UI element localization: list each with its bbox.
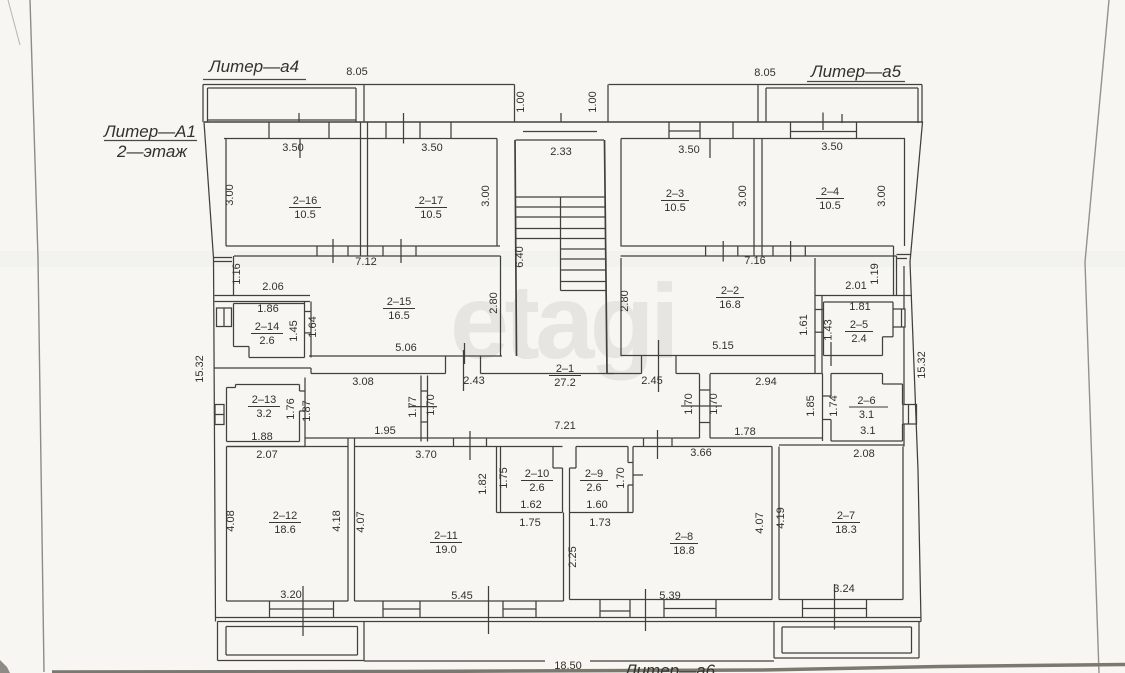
corridor wall x699.5	[699, 374, 701, 438]
svg-text:8.05: 8.05	[346, 66, 367, 78]
18.50 dimension line	[364, 660, 545, 662]
svg-text:Литер—а6: Литер—а6	[624, 661, 716, 673]
svg-text:1.70: 1.70	[708, 393, 720, 414]
room 2-3 left wall	[620, 139, 622, 247]
mid band right wing	[621, 245, 894, 247]
svg-text:2.6: 2.6	[586, 482, 601, 494]
svg-text:18.6: 18.6	[274, 524, 295, 536]
mid band left wing	[226, 245, 500, 247]
bottom porch right	[773, 622, 775, 659]
svg-text:1.45: 1.45	[288, 320, 300, 341]
svg-text:1.95: 1.95	[374, 425, 395, 437]
svg-text:2—этаж: 2—этаж	[116, 142, 188, 161]
svg-text:3.2: 3.2	[256, 408, 271, 420]
bottom dim ticks	[302, 586, 304, 636]
svg-text:3.24: 3.24	[833, 583, 854, 595]
svg-text:19.0: 19.0	[435, 544, 456, 556]
svg-text:10.5: 10.5	[664, 202, 685, 214]
svg-text:3.66: 3.66	[690, 447, 711, 459]
wall between 2-14 and 2-15	[304, 302, 306, 358]
svg-text:2.4: 2.4	[851, 333, 866, 345]
wall 2-8/2-7	[771, 447, 773, 600]
svg-text:10.5: 10.5	[819, 200, 840, 212]
svg-text:5.45: 5.45	[451, 590, 472, 602]
top wall ticks left wing	[268, 122, 270, 139]
left outer wall upper slant	[204, 122, 214, 258]
svg-text:1.74: 1.74	[828, 395, 840, 416]
svg-text:16.5: 16.5	[388, 310, 409, 322]
svg-text:6.40: 6.40	[514, 246, 526, 267]
svg-text:3.00: 3.00	[876, 185, 888, 206]
svg-text:27.2: 27.2	[554, 377, 575, 389]
right wing band step to outer wall	[893, 246, 895, 296]
svg-text:2.6: 2.6	[259, 335, 274, 347]
svg-text:2.94: 2.94	[755, 376, 776, 388]
bottom interior lines	[227, 600, 349, 602]
room 2-7 right	[902, 447, 904, 600]
dim tick 5.15	[830, 342, 832, 366]
svg-text:1.77: 1.77	[407, 396, 419, 417]
svg-text:8.05: 8.05	[754, 67, 775, 79]
svg-text:1.43: 1.43	[823, 319, 835, 340]
bottom windows	[269, 601, 271, 618]
svg-text:2.33: 2.33	[550, 146, 571, 158]
svg-text:1.78: 1.78	[734, 426, 755, 438]
titles	[103, 57, 905, 673]
svg-text:2–4: 2–4	[821, 186, 839, 198]
svg-text:1.62: 1.62	[520, 499, 541, 511]
svg-text:2.45: 2.45	[641, 375, 662, 387]
svg-text:10.5: 10.5	[420, 209, 441, 221]
svg-text:4.19: 4.19	[775, 507, 787, 528]
svg-text:2.6: 2.6	[529, 482, 544, 494]
porch liter-a4	[202, 85, 204, 123]
vent box left 2-13	[215, 405, 224, 425]
svg-text:2–6: 2–6	[857, 395, 875, 407]
svg-text:4.07: 4.07	[754, 512, 766, 533]
closet 2-9	[575, 447, 577, 469]
scan fold light band	[0, 251, 1125, 267]
svg-text:1.70: 1.70	[425, 394, 437, 415]
svg-text:2–13: 2–13	[252, 394, 276, 406]
svg-text:1.87: 1.87	[301, 400, 313, 421]
svg-text:1.81: 1.81	[849, 301, 870, 313]
stair vestibule outside walls	[514, 85, 516, 123]
room 2-5 block	[815, 295, 912, 297]
svg-text:2–1: 2–1	[556, 363, 574, 375]
right wall inner face	[903, 266, 905, 309]
top wall ticks right wing	[668, 122, 670, 139]
svg-text:2–8: 2–8	[675, 531, 693, 543]
svg-text:3.00: 3.00	[224, 184, 236, 205]
svg-text:5.15: 5.15	[712, 340, 733, 352]
svg-text:15.32: 15.32	[916, 351, 928, 379]
svg-text:18.8: 18.8	[673, 545, 694, 557]
svg-text:1.60: 1.60	[586, 499, 607, 511]
svg-text:1.82: 1.82	[477, 473, 489, 494]
svg-text:16.8: 16.8	[719, 299, 740, 311]
svg-text:2.80: 2.80	[619, 290, 631, 311]
bottom outer wall	[216, 617, 922, 619]
svg-text:2.80: 2.80	[488, 292, 500, 313]
svg-text:2.43: 2.43	[463, 375, 484, 387]
closet 2-10	[496, 447, 498, 513]
svg-text:5.39: 5.39	[659, 590, 680, 602]
svg-text:Литер—а5: Литер—а5	[810, 62, 902, 81]
rotated dimension labels	[194, 91, 928, 567]
svg-text:2.25: 2.25	[567, 546, 579, 567]
stair lower flight steps	[561, 248, 607, 250]
room 2-14	[234, 303, 305, 305]
svg-text:1.16: 1.16	[231, 263, 243, 284]
stair divider	[560, 197, 562, 291]
svg-text:1.76: 1.76	[285, 398, 297, 419]
vent box right 2-6	[903, 405, 917, 425]
room 2-17 right wall	[496, 139, 498, 247]
svg-text:3.70: 3.70	[415, 449, 436, 461]
svg-text:1.70: 1.70	[683, 393, 695, 414]
room 2-2 walls	[620, 258, 622, 356]
svg-text:2–12: 2–12	[273, 510, 297, 522]
svg-text:3.00: 3.00	[480, 185, 492, 206]
left step wall under band	[214, 257, 233, 259]
room tops along corridor	[227, 446, 349, 448]
svg-text:1.19: 1.19	[869, 263, 881, 284]
svg-text:1.00: 1.00	[587, 91, 599, 112]
stair upper flight steps	[516, 206, 606, 208]
dim tick 5.06	[464, 343, 466, 364]
stair vestibule bottom	[516, 196, 606, 198]
room 2-4 right wall	[904, 139, 906, 247]
svg-text:2–2: 2–2	[721, 285, 739, 297]
vent box right 2-5	[893, 309, 905, 327]
svg-text:1.64: 1.64	[307, 316, 319, 337]
page right edge	[1085, 0, 1109, 673]
page bottom-left corner blob	[0, 660, 10, 673]
svg-text:1.88: 1.88	[251, 431, 272, 443]
svg-text:Литер—А1: Литер—А1	[103, 122, 196, 141]
page bottom dark edge	[52, 665, 1125, 673]
svg-text:3.50: 3.50	[282, 142, 303, 154]
svg-text:5.06: 5.06	[395, 342, 416, 354]
svg-text:2.07: 2.07	[256, 449, 277, 461]
page left edge	[30, 0, 44, 672]
stair shaft left wall	[515, 140, 517, 356]
corridor bottom band	[305, 437, 700, 439]
room 2-12 left	[226, 447, 228, 602]
bottom porch left	[217, 622, 219, 661]
porch liter-a5	[757, 85, 759, 123]
wall between 2-3 and 2-4	[753, 139, 755, 257]
svg-text:2–7: 2–7	[837, 510, 855, 522]
svg-text:1.73: 1.73	[589, 517, 610, 529]
svg-text:2–15: 2–15	[387, 296, 411, 308]
svg-text:1.85: 1.85	[805, 395, 817, 416]
svg-text:15.32: 15.32	[194, 355, 206, 383]
room 2-13	[227, 387, 236, 389]
stair entry lines	[523, 131, 597, 133]
wall between 2-16 and 2-17	[360, 122, 362, 256]
svg-text:2–16: 2–16	[293, 195, 317, 207]
svg-text:3.50: 3.50	[421, 142, 442, 154]
svg-text:Литер—а4: Литер—а4	[208, 57, 299, 76]
door 2-15 to corridor	[445, 356, 447, 374]
svg-text:4.08: 4.08	[225, 510, 237, 531]
vent box left 2-14	[217, 308, 232, 327]
svg-text:1.00: 1.00	[515, 91, 527, 112]
top outline line right	[609, 84, 923, 86]
horizontal dimension labels	[251, 66, 875, 602]
svg-text:3.08: 3.08	[352, 376, 373, 388]
svg-text:2–3: 2–3	[666, 188, 684, 200]
room number labels	[248, 186, 888, 557]
svg-text:2–14: 2–14	[255, 321, 279, 333]
2-6 block	[822, 374, 824, 442]
stair shaft right wall	[605, 140, 608, 373]
svg-text:7.21: 7.21	[554, 420, 575, 432]
svg-text:3.50: 3.50	[821, 141, 842, 153]
svg-text:2–10: 2–10	[525, 468, 549, 480]
svg-text:18.3: 18.3	[835, 524, 856, 536]
svg-text:2.06: 2.06	[262, 281, 283, 293]
wall above 2-14	[215, 295, 311, 297]
top outline line left	[203, 84, 515, 86]
svg-text:2.01: 2.01	[845, 280, 866, 292]
svg-text:10.5: 10.5	[294, 209, 315, 221]
wall x421 corridor	[420, 376, 422, 442]
svg-text:4.18: 4.18	[331, 510, 343, 531]
main top wall band	[204, 121, 923, 123]
svg-text:1.70: 1.70	[615, 467, 627, 488]
svg-text:18.50: 18.50	[554, 660, 582, 672]
svg-text:1.86: 1.86	[257, 303, 278, 315]
svg-text:1.75: 1.75	[498, 467, 510, 488]
svg-text:3.1: 3.1	[859, 409, 874, 421]
svg-text:7.16: 7.16	[744, 255, 765, 267]
left outer wall lower	[214, 258, 216, 622]
svg-text:3.50: 3.50	[678, 144, 699, 156]
svg-text:2–9: 2–9	[585, 468, 603, 480]
svg-text:3.1: 3.1	[860, 425, 875, 437]
svg-text:3.00: 3.00	[737, 185, 749, 206]
svg-text:2–11: 2–11	[434, 530, 458, 542]
svg-text:3.20: 3.20	[280, 589, 301, 601]
svg-text:1.61: 1.61	[798, 314, 810, 335]
svg-text:2.08: 2.08	[853, 448, 874, 460]
room 2-16 walls	[225, 139, 227, 247]
corridor top band right + door 2-2	[607, 373, 642, 375]
svg-text:2–5: 2–5	[850, 319, 868, 331]
svg-text:7.12: 7.12	[355, 256, 376, 268]
page top-left corner edge	[8, 0, 20, 45]
shaft between 2-11 and 2-8	[563, 513, 565, 602]
corridor top band	[215, 367, 312, 369]
wall 2-12/2-11	[347, 438, 349, 601]
svg-text:4.07: 4.07	[355, 511, 367, 532]
svg-text:2–17: 2–17	[419, 195, 443, 207]
room 2-15 walls	[233, 256, 235, 296]
svg-text:1.75: 1.75	[519, 517, 540, 529]
right outer wall	[910, 122, 923, 622]
